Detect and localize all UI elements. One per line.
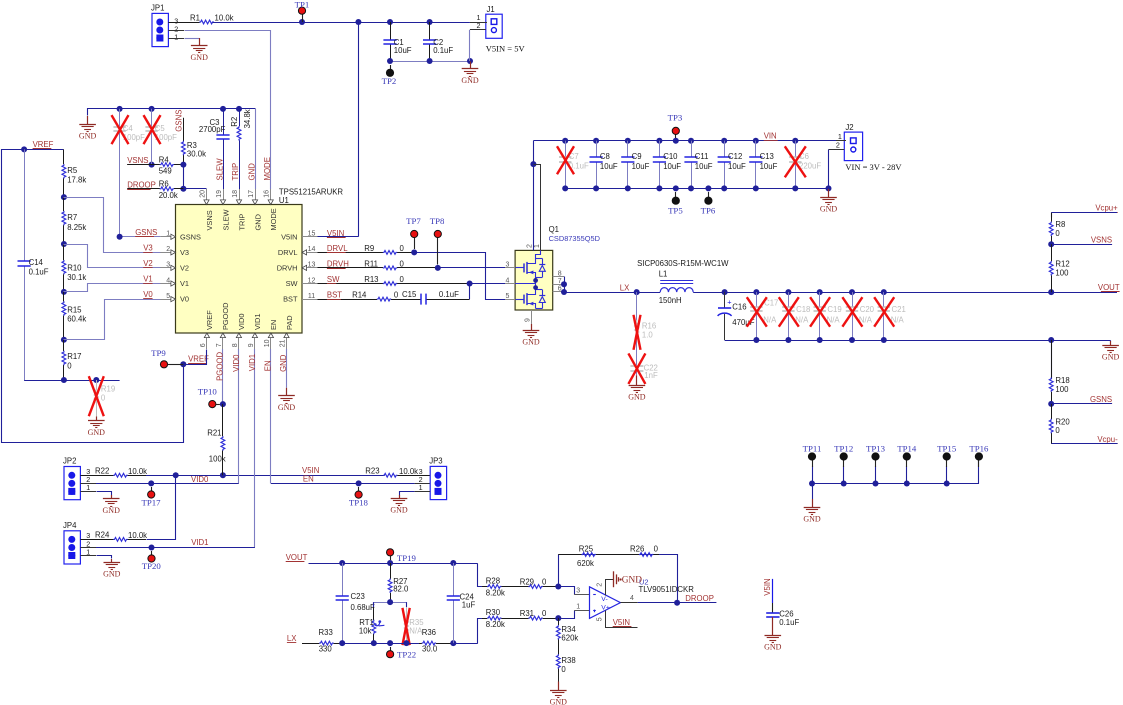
ground JP1 pin1 [191, 38, 209, 62]
svg-text:TP6: TP6 [701, 206, 716, 216]
svg-text:R38: R38 [561, 656, 575, 665]
svg-text:DRVH: DRVH [277, 264, 298, 273]
wire tap V0 [64, 300, 161, 340]
svg-text:10.0k: 10.0k [128, 467, 147, 476]
svg-text:30.0: 30.0 [422, 645, 438, 654]
ground C26 [764, 617, 782, 651]
wire R6 to VSNS pin [183, 188, 206, 191]
svg-text:VID0: VID0 [191, 475, 209, 484]
svg-text:C14: C14 [29, 258, 44, 267]
svg-text:VREF: VREF [33, 140, 54, 149]
svg-text:V0: V0 [143, 290, 153, 299]
X over C22 [628, 353, 645, 384]
resistor R12 [1049, 244, 1069, 292]
svg-text:TP10: TP10 [198, 387, 218, 397]
svg-text:100: 100 [1055, 385, 1069, 394]
wire VOUT bottom rail [725, 314, 1111, 343]
svg-text:VREF: VREF [205, 310, 214, 330]
wire pin3 jog [559, 587, 590, 595]
svg-text:PGOOD: PGOOD [221, 302, 230, 330]
connector JP1 [151, 4, 178, 47]
svg-text:GND: GND [820, 205, 838, 214]
svg-text:VID1: VID1 [248, 354, 257, 371]
svg-text:DRVL: DRVL [278, 248, 298, 257]
svg-text:10uF: 10uF [632, 162, 650, 171]
wire LX row [339, 640, 419, 646]
svg-text:R1: R1 [190, 13, 200, 22]
resistor R29 [519, 577, 561, 589]
svg-text:U1: U1 [279, 196, 289, 205]
svg-text:LX: LX [620, 283, 630, 292]
svg-text:GND: GND [191, 53, 209, 62]
svg-text:10.0k: 10.0k [399, 467, 418, 476]
svg-text:3: 3 [166, 262, 170, 269]
wire V5IN row [146, 472, 385, 478]
svg-text:2: 2 [597, 583, 604, 587]
svg-text:SW: SW [327, 275, 340, 284]
svg-text:CSD87355Q5D: CSD87355Q5D [549, 234, 600, 243]
capacitor C8 [590, 141, 618, 189]
wire V5IN top rail [213, 19, 470, 25]
svg-text:C12: C12 [728, 152, 742, 161]
svg-text:1.0: 1.0 [642, 331, 654, 340]
svg-text:3: 3 [506, 262, 510, 269]
resistor R13 [318, 275, 473, 286]
wire Q1 pin2 VIN [530, 141, 536, 251]
capacitor C24 [447, 563, 476, 643]
svg-text:R25: R25 [579, 545, 594, 554]
wire ladder bottom [24, 377, 120, 383]
capacitor C17 (DNP) [750, 292, 778, 340]
svg-text:R29: R29 [520, 577, 534, 586]
svg-text:2: 2 [526, 244, 533, 248]
label V0 [143, 290, 153, 299]
svg-text:R2: R2 [230, 117, 239, 127]
X over C4 [112, 115, 129, 144]
svg-text:R4: R4 [159, 155, 170, 164]
svg-text:J1: J1 [487, 5, 495, 14]
svg-text:L1: L1 [659, 269, 668, 278]
svg-text:10uF: 10uF [663, 162, 681, 171]
svg-text:1: 1 [838, 132, 842, 141]
svg-text:620k: 620k [577, 559, 594, 568]
svg-text:8: 8 [232, 343, 239, 347]
svg-text:JP2: JP2 [63, 457, 76, 466]
U2 pin1 number [576, 603, 580, 610]
svg-text:Vcpu+: Vcpu+ [1095, 204, 1118, 213]
svg-text:C4: C4 [123, 124, 134, 133]
op-amp U2 [590, 578, 695, 619]
svg-text:GND: GND [103, 570, 121, 579]
capacitor C13 [749, 141, 777, 189]
svg-text:C8: C8 [600, 152, 610, 161]
svg-text:220uF: 220uF [799, 161, 821, 170]
svg-text:R14: R14 [352, 291, 367, 300]
U2 pin2 stub [597, 580, 614, 596]
svg-text:GND: GND [278, 403, 296, 412]
svg-text:V3: V3 [180, 248, 189, 257]
svg-text:30.1k: 30.1k [67, 273, 86, 282]
label MODE vertical [263, 157, 272, 180]
resistor R23 [365, 467, 430, 477]
test point TP13 [866, 443, 886, 483]
svg-text:1: 1 [534, 244, 541, 248]
label DROOP out [685, 594, 714, 603]
resistor R28 [482, 576, 519, 597]
ground R19 [88, 417, 106, 437]
svg-text:VOUT: VOUT [286, 553, 308, 562]
svg-text:4: 4 [506, 277, 510, 284]
capacitor C26 [766, 579, 799, 627]
svg-text:100k: 100k [209, 455, 226, 464]
label VOUT opamp [286, 553, 308, 562]
wire Q1 pin1 VIN [534, 165, 541, 251]
Q1 left pin stubs [505, 262, 515, 300]
svg-text:V5IN: V5IN [613, 618, 630, 627]
svg-text:R6: R6 [159, 180, 169, 189]
resistor R33 [302, 628, 342, 654]
svg-text:GND: GND [622, 576, 642, 586]
resistor R24 [80, 531, 147, 542]
capacitor C2 [423, 22, 453, 61]
ground TP row [803, 484, 821, 524]
capacitor C1 [383, 22, 411, 61]
svg-text:GND: GND [88, 428, 106, 437]
svg-text:0.1uF: 0.1uF [29, 267, 49, 276]
svg-text:TP13: TP13 [866, 443, 886, 453]
label PGOOD vertical [216, 352, 225, 381]
resistor R22 [80, 467, 147, 478]
wire R36 to R30 branch [450, 640, 477, 646]
ground R38 [550, 672, 568, 705]
svg-text:0.1uF: 0.1uF [779, 618, 799, 627]
svg-text:SW: SW [286, 279, 298, 288]
svg-text:VSNS: VSNS [205, 210, 214, 230]
svg-text:4: 4 [630, 595, 634, 602]
svg-text:15: 15 [308, 231, 316, 238]
svg-text:R7: R7 [67, 213, 77, 222]
svg-text:VID1: VID1 [253, 314, 262, 330]
wire Vcpu- [1052, 443, 1118, 445]
svg-text:PAD: PAD [285, 315, 294, 330]
capacitor C22 (DNP) [630, 355, 658, 380]
svg-text:GND: GND [628, 393, 646, 402]
capacitor C5 (DNP) [145, 109, 177, 168]
svg-text:30.0k: 30.0k [187, 149, 206, 158]
wire VOUT rail [693, 289, 1054, 295]
svg-text:5: 5 [166, 293, 170, 300]
svg-text:60.4k: 60.4k [67, 315, 86, 324]
svg-text:0.1uF: 0.1uF [439, 290, 459, 299]
svg-text:TP19: TP19 [397, 553, 417, 563]
label SW [327, 275, 340, 284]
svg-text:2: 2 [836, 141, 840, 150]
svg-text:VOUT: VOUT [1098, 283, 1120, 292]
wire JP2 pin1 gnd [80, 492, 111, 496]
resistor R5 [61, 149, 86, 200]
svg-text:2: 2 [166, 246, 170, 253]
svg-text:C11: C11 [695, 152, 709, 161]
svg-text:C19: C19 [827, 305, 841, 314]
test point TP1 [295, 0, 310, 22]
svg-text:82.0: 82.0 [393, 585, 409, 594]
svg-text:MODE: MODE [263, 157, 272, 180]
svg-text:19: 19 [216, 190, 223, 198]
svg-text:C20: C20 [860, 305, 875, 314]
svg-text:R31: R31 [520, 609, 534, 618]
label V5IN C26 vertical [763, 578, 772, 595]
svg-text:0: 0 [400, 260, 405, 269]
svg-text:8.25k: 8.25k [67, 223, 86, 232]
label DRVH [327, 260, 349, 269]
resistor R26 [610, 545, 659, 557]
svg-text:EN: EN [269, 320, 278, 330]
svg-text:5: 5 [506, 293, 510, 300]
svg-text:0: 0 [1055, 229, 1060, 238]
svg-text:R16: R16 [642, 321, 656, 330]
capacitor C20 (DNP) [846, 292, 875, 340]
svg-text:GSNS: GSNS [174, 110, 183, 132]
svg-text:GSNS: GSNS [1090, 395, 1112, 404]
svg-text:C13: C13 [760, 152, 774, 161]
svg-text:2700pF: 2700pF [199, 125, 226, 134]
X over C21 [874, 297, 894, 327]
svg-text:10uF: 10uF [760, 162, 778, 171]
svg-text:13: 13 [308, 262, 316, 269]
test point TP5 [668, 192, 683, 216]
test point TP16 [969, 443, 989, 467]
test point TP15 [937, 443, 957, 483]
label Vcpu- right [1094, 435, 1118, 444]
X over C20 [842, 297, 862, 327]
svg-text:VID0: VID0 [232, 354, 241, 372]
resistor R20 [1049, 404, 1070, 444]
Q1 right bracket [553, 271, 567, 296]
svg-text:10: 10 [264, 339, 271, 347]
svg-text:R22: R22 [95, 467, 109, 476]
test point TP17 [141, 487, 161, 507]
label GND vertical mode [247, 163, 256, 181]
svg-text:+: + [727, 298, 731, 307]
svg-text:TP17: TP17 [141, 497, 161, 507]
svg-text:GND: GND [390, 505, 408, 514]
svg-text:17.8k: 17.8k [67, 175, 86, 184]
svg-text:0.1uF: 0.1uF [433, 46, 453, 55]
U2 pin5 stub [597, 611, 638, 628]
svg-text:VIN: VIN [764, 132, 777, 141]
svg-text:C15: C15 [402, 290, 417, 299]
svg-text:0: 0 [654, 545, 659, 554]
svg-text:21: 21 [280, 339, 287, 347]
svg-text:TP11: TP11 [803, 443, 822, 453]
resistor R4 [127, 155, 186, 175]
op-amp U1 TPS51215ARUKR [160, 187, 343, 349]
wire JP4 pin1 gnd [80, 556, 111, 559]
wire feedback top [558, 554, 677, 556]
svg-text:TP3: TP3 [668, 113, 683, 123]
wire VOUT row [309, 560, 478, 566]
capacitor C16 [718, 292, 755, 340]
svg-text:GND: GND [803, 515, 821, 524]
label GSNS right [1090, 395, 1112, 404]
svg-text:1uF: 1uF [462, 601, 476, 610]
wire R18 top [1051, 340, 1053, 379]
capacitor C19 (DNP) [814, 292, 842, 340]
label VIN = 3V - 28V [845, 162, 902, 172]
label BST [327, 291, 342, 300]
svg-text:TP2: TP2 [382, 76, 397, 86]
wire R30 branch [478, 619, 483, 644]
svg-text:3: 3 [576, 587, 580, 594]
svg-text:TP9: TP9 [151, 348, 166, 358]
Q1 bottom pin [524, 310, 531, 324]
svg-text:9: 9 [524, 318, 531, 322]
svg-text:16: 16 [264, 190, 271, 198]
ground rail left [79, 116, 97, 141]
wire JP1 pin1 to gnd [168, 38, 199, 40]
label LX mid [620, 283, 630, 292]
label TRIP vertical [231, 163, 240, 181]
wire RT1 node [374, 599, 407, 607]
label EN row [303, 474, 314, 483]
wire pin1 jog [559, 611, 590, 619]
connector J1 [470, 5, 502, 38]
svg-text:8: 8 [558, 271, 562, 278]
svg-text:R28: R28 [486, 576, 500, 585]
ground VOUT rail [1102, 341, 1120, 362]
capacitor C7 (DNP) [559, 141, 589, 189]
wire EN vertical [271, 349, 431, 486]
svg-text:VID0: VID0 [237, 314, 246, 330]
resistor R27 [388, 563, 409, 602]
test point TP12 [834, 443, 853, 483]
svg-text:C23: C23 [351, 592, 365, 601]
svg-text:20.0k: 20.0k [159, 191, 178, 200]
power flag GND U2 [614, 571, 643, 587]
wire GSNS to pin1 [117, 234, 161, 240]
Q1 top pin numbers [526, 244, 540, 248]
test point TP14 [897, 443, 917, 483]
ground PAD [278, 388, 296, 412]
svg-text:0: 0 [542, 577, 547, 586]
svg-text:R36: R36 [422, 628, 436, 637]
label VREF pin6 [188, 355, 209, 364]
test point TP22 [387, 647, 417, 659]
svg-text:Vcpu-: Vcpu- [1097, 435, 1118, 444]
svg-text:JP4: JP4 [63, 521, 77, 530]
svg-text:R23: R23 [365, 467, 379, 476]
wire VIN bottom rail [562, 185, 831, 191]
label V5IN = 5V [486, 43, 526, 53]
svg-text:1: 1 [576, 603, 580, 610]
svg-text:R11: R11 [364, 260, 378, 269]
svg-text:R21: R21 [207, 429, 221, 438]
X over R19 [89, 376, 104, 416]
svg-text:TP20: TP20 [142, 561, 162, 571]
wire JP2 pin2 VID0 [80, 480, 239, 486]
wire VIN bus [533, 138, 844, 144]
label DRVL [327, 244, 348, 253]
svg-text:0: 0 [542, 609, 547, 618]
svg-text:1: 1 [419, 483, 423, 492]
svg-text:TRIP: TRIP [231, 163, 240, 181]
test point TP8 [430, 216, 445, 265]
svg-text:R10: R10 [67, 264, 82, 273]
test point TP18 [349, 487, 369, 508]
resistor R16 (DNP) [635, 292, 656, 355]
ground J1 [461, 62, 479, 86]
svg-text:PGOOD: PGOOD [216, 352, 225, 381]
svg-text:8.20k: 8.20k [486, 620, 505, 629]
svg-text:10.0k: 10.0k [128, 531, 147, 540]
wire tap V3 [64, 198, 161, 253]
svg-text:R18: R18 [1055, 376, 1069, 385]
svg-text:V2: V2 [143, 259, 153, 268]
svg-text:C16: C16 [732, 303, 746, 312]
resistor R1 [168, 13, 233, 24]
svg-text:GND: GND [461, 76, 479, 85]
ground JP2 [103, 495, 121, 515]
resistor R17 [61, 340, 82, 383]
test point TP9 [151, 348, 183, 368]
svg-text:GND: GND [522, 338, 540, 347]
svg-text:8.20k: 8.20k [486, 589, 505, 598]
wire PAD gnd [286, 349, 288, 388]
svg-text:TP22: TP22 [397, 649, 416, 659]
svg-text:C10: C10 [663, 152, 678, 161]
test point TP3 [668, 113, 683, 138]
X over R35 [402, 608, 409, 645]
svg-text:SICP0630S-R15M-WC1W: SICP0630S-R15M-WC1W [637, 259, 729, 268]
svg-text:4: 4 [166, 277, 170, 284]
svg-text:10.0k: 10.0k [215, 13, 234, 22]
resistor R36 [419, 628, 453, 654]
svg-text:TP8: TP8 [430, 216, 445, 226]
label V2 [143, 259, 153, 268]
svg-text:VID1: VID1 [191, 538, 208, 547]
wire VREF rail [2, 146, 184, 442]
label EN vertical [263, 360, 272, 371]
svg-text:R26: R26 [630, 545, 644, 554]
svg-text:11: 11 [308, 293, 315, 300]
svg-text:6: 6 [558, 286, 562, 293]
svg-text:V3: V3 [143, 244, 153, 253]
svg-text:5: 5 [597, 617, 604, 621]
connector J2 [829, 123, 863, 161]
svg-text:10k: 10k [359, 626, 372, 635]
wire VREF pin6 [180, 350, 206, 368]
svg-text:C5: C5 [155, 124, 166, 133]
svg-text:20: 20 [200, 190, 207, 198]
wire PGOOD vertical [220, 349, 226, 407]
resistor R3 [182, 118, 207, 165]
svg-text:V5IN = 5V: V5IN = 5V [486, 43, 526, 53]
label VREF top [33, 140, 54, 149]
svg-text:GSNS: GSNS [180, 232, 201, 241]
wire VID1 vertical [254, 349, 256, 548]
svg-text:VSNS: VSNS [1091, 235, 1112, 244]
capacitor C10 [653, 141, 681, 189]
svg-text:V1: V1 [143, 275, 153, 284]
svg-text:DROOP: DROOP [685, 594, 714, 603]
wire SW to Q1 pin4 [470, 283, 505, 285]
svg-text:R30: R30 [486, 608, 501, 617]
svg-text:14: 14 [308, 246, 316, 253]
test point TP11 [803, 443, 822, 483]
svg-text:TP5: TP5 [668, 206, 683, 216]
wire J1 pin2 to gnd [469, 30, 471, 61]
svg-text:C18: C18 [796, 305, 810, 314]
